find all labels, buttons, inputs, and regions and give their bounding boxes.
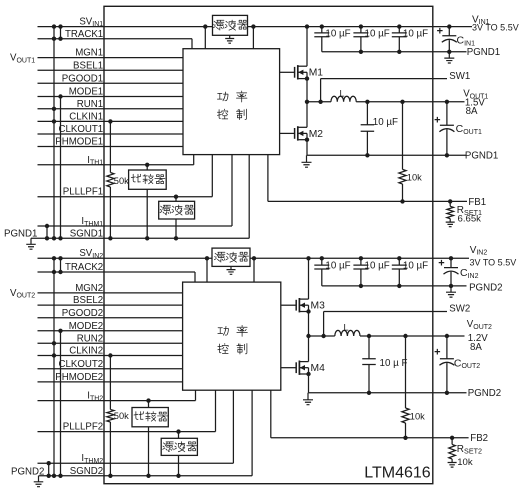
node cmp-ITH ch1 xyxy=(145,163,149,167)
svg-text:8A: 8A xyxy=(470,342,482,353)
wire 50k rail ch2 upper xyxy=(109,356,111,410)
node SGND2 x148.5 xyxy=(146,474,150,478)
node flt-PLL ch2 xyxy=(176,429,180,433)
capacitor C_OUT2 xyxy=(439,336,454,393)
svg-text:10 µF: 10 µF xyxy=(403,28,428,39)
node railB-SVIN ch2 xyxy=(58,256,62,260)
wire PLLLPF1 riser xyxy=(211,155,213,197)
svg-text:10k: 10k xyxy=(410,412,425,422)
node railB-MODE ch2 xyxy=(58,329,62,333)
wire jumper SVIN-TRACK ch2 xyxy=(60,258,62,272)
svg-text:LTM4616: LTM4616 xyxy=(364,465,431,482)
comparator box (比较器) ch1 xyxy=(129,170,167,189)
wire M4 source rail xyxy=(308,368,310,393)
svg-text:3V TO 5.5V: 3V TO 5.5V xyxy=(470,257,517,267)
ground R_SET2 xyxy=(448,459,457,467)
wire I_TH2 xyxy=(38,400,196,402)
transistor M2 body stub xyxy=(298,132,307,134)
transistor M3 source stub xyxy=(299,311,308,313)
transistor M2 channel bar xyxy=(297,126,299,140)
node M1 source xyxy=(305,76,309,80)
wire PGND2 output xyxy=(309,392,467,394)
node railA-SVIN ch1 xyxy=(52,24,56,28)
wire SVIN riser b ch2 xyxy=(253,258,255,282)
svg-text:MGN2: MGN2 xyxy=(75,283,103,294)
wire FB2 riser xyxy=(270,390,272,438)
node 10k top ch2 xyxy=(403,334,407,338)
wire PLLLPF2 xyxy=(38,431,216,433)
node switch-rail ch2 xyxy=(306,334,310,338)
transistor M1 body stub xyxy=(298,71,307,73)
wire switch node ch1 xyxy=(307,101,331,103)
ground PGND2 xyxy=(34,476,44,487)
node 10uF bottom ch2 xyxy=(367,391,371,395)
wire input gnd line ch1 xyxy=(322,51,467,53)
capacitor 10uF out ch2 xyxy=(362,336,376,393)
resistor 50k ch1 xyxy=(107,173,114,188)
svg-text:PLLLPF2: PLLLPF2 xyxy=(63,422,103,433)
svg-text:10 µF: 10 µF xyxy=(325,261,350,272)
wire SGND1 xyxy=(31,237,249,239)
node R_SET2 top xyxy=(450,436,454,440)
wire SGND2 riser xyxy=(251,390,253,476)
transistor M1 drain stub xyxy=(298,65,307,67)
capacitor C_OUT1 xyxy=(439,102,454,156)
svg-text:10 µF: 10 µF xyxy=(373,117,398,128)
filter box (滤波器) ch1 top xyxy=(213,15,248,35)
transistor M1 body arrow xyxy=(298,70,303,75)
wire M4 drain rail xyxy=(308,336,310,362)
svg-text:PGND1: PGND1 xyxy=(467,47,500,58)
wire TRACK2 xyxy=(38,271,196,273)
svg-text:COUT2: COUT2 xyxy=(454,357,480,370)
svg-text:PGOOD1: PGOOD1 xyxy=(62,73,103,84)
node cap3 bottom ch2 xyxy=(397,284,401,288)
node SVIN riser b ch2 xyxy=(252,256,256,260)
wire M3 source rail xyxy=(308,305,310,336)
inductor L ch1 xyxy=(331,96,356,102)
svg-text:CLKIN2: CLKIN2 xyxy=(69,346,103,357)
svg-text:L: L xyxy=(340,88,345,98)
svg-text:PGOOD2: PGOOD2 xyxy=(62,308,103,319)
svg-text:BSEL1: BSEL1 xyxy=(73,60,103,71)
node cap3 top ch1 xyxy=(397,24,401,28)
node SGND1 x60.5 xyxy=(58,236,62,240)
transistor M3 channel bar xyxy=(298,298,300,312)
svg-text:CLKOUT2: CLKOUT2 xyxy=(59,359,104,370)
filter box (滤波器) ch2 top xyxy=(212,248,250,266)
node cap2 bottom ch1 xyxy=(359,50,363,54)
ground M4 source xyxy=(303,393,313,405)
node M2 source xyxy=(305,138,309,142)
svg-text:PGND2: PGND2 xyxy=(11,467,44,478)
node 10uF top ch2 xyxy=(367,334,371,338)
wire input gnd line ch2 xyxy=(322,285,467,287)
svg-text:SVIN2: SVIN2 xyxy=(79,248,103,260)
power-control block U2 xyxy=(183,282,281,390)
capacitor 10uF input 2 ch1 xyxy=(353,27,368,52)
node C_IN2 top xyxy=(449,256,453,260)
svg-text:ITH1: ITH1 xyxy=(87,155,103,167)
svg-text:10 µF: 10 µF xyxy=(403,261,428,272)
ground C_IN1 xyxy=(444,52,454,63)
svg-text:PLLLPF1: PLLLPF1 xyxy=(63,187,103,198)
node SGND2 x48.7 xyxy=(47,474,51,478)
wire SW1 riser xyxy=(320,79,322,102)
wire I_THM1 xyxy=(38,225,233,227)
node cap3 bottom ch1 xyxy=(397,50,401,54)
capacitor 10uF input 3 ch1 xyxy=(392,27,407,52)
resistor R_SET1 xyxy=(447,206,454,218)
wire switch node ch2 xyxy=(309,335,335,337)
wire MGN2 xyxy=(38,292,183,294)
wire 10k rail upper ch1 xyxy=(402,102,404,170)
wire FB1 riser xyxy=(267,155,269,202)
wire CLKIN1 xyxy=(38,120,184,122)
svg-text:M2: M2 xyxy=(309,129,324,140)
wire M2 gate lead xyxy=(280,132,295,134)
svg-text:CLKOUT1: CLKOUT1 xyxy=(59,124,104,135)
wire SV_IN2/V_IN2 net xyxy=(38,257,470,259)
transistor M4 gate bar xyxy=(295,362,297,373)
wire comparator rail ch2 xyxy=(148,401,150,476)
ground M2 source xyxy=(302,155,312,167)
transistor M2 drain stub xyxy=(298,126,307,128)
ground filter ch2 xyxy=(227,266,236,274)
wire M1 drain rail xyxy=(306,27,308,67)
wire I_THM2 xyxy=(38,462,234,464)
wire M3 drain rail xyxy=(308,258,310,299)
svg-text:10 µF: 10 µF xyxy=(325,28,350,39)
svg-text:L: L xyxy=(344,323,349,333)
filter box (滤波器) ch2 lower xyxy=(161,438,197,455)
wire 50k rail ch1 lower xyxy=(109,187,111,238)
transistor M1 source stub xyxy=(298,78,307,80)
wire SV_IN1/V_IN1 net xyxy=(38,26,473,28)
node SGND1 x54 xyxy=(52,236,56,240)
wire MODE1 xyxy=(38,96,184,98)
svg-text:PGND2: PGND2 xyxy=(469,283,502,294)
svg-text:6.65k: 6.65k xyxy=(458,214,482,225)
svg-text:ITHM2: ITHM2 xyxy=(81,453,103,465)
svg-text:RSET2: RSET2 xyxy=(457,444,482,456)
wire PHMODE2 xyxy=(38,381,183,383)
svg-text:PGND1: PGND1 xyxy=(465,151,498,162)
svg-text:+: + xyxy=(434,347,440,359)
node switch-rail ch1 xyxy=(305,100,309,104)
svg-text:FB1: FB1 xyxy=(468,197,486,208)
node R_SET1 top xyxy=(448,199,452,203)
svg-text:MGN1: MGN1 xyxy=(75,48,103,59)
svg-text:+: + xyxy=(438,257,444,269)
node C_IN1 top xyxy=(447,24,451,28)
node SGND1 x176 xyxy=(174,236,178,240)
wire FB1 xyxy=(268,200,467,202)
svg-text:MODE2: MODE2 xyxy=(69,321,103,332)
svg-text:VOUT1: VOUT1 xyxy=(10,53,35,65)
wire M3 gate lead xyxy=(281,304,296,306)
node SGND2 x60.5 xyxy=(58,474,62,478)
node 50k-CLKIN ch1 xyxy=(108,119,112,123)
filter box (滤波器) ch1 lower xyxy=(159,201,195,219)
wire I_TH1 riser xyxy=(193,155,195,165)
wire I_TH1 xyxy=(38,164,194,166)
wire PHMODE1 xyxy=(38,146,184,148)
wire filter rail ch1 xyxy=(175,197,177,239)
node railA-CLKIN ch2 xyxy=(52,353,56,357)
resistor 10k ch1 xyxy=(399,169,406,184)
node C_OUT1 bottom xyxy=(445,153,449,157)
svg-text:ITHM1: ITHM1 xyxy=(81,216,103,228)
wire V_OUT2 line xyxy=(360,335,465,337)
wire TRACK2 riser xyxy=(194,272,196,282)
svg-text:PGND2: PGND2 xyxy=(468,388,501,399)
transistor M3 drain stub xyxy=(299,298,308,300)
comparator box (比较器) ch2 xyxy=(132,408,168,427)
transistor M2 body arrow xyxy=(298,131,303,136)
wire PGND2 jumper xyxy=(48,463,50,476)
wire BSEL2 xyxy=(38,304,183,306)
wire SVIN riser a ch2 xyxy=(206,258,208,282)
capacitor 10uF out ch1 xyxy=(361,102,375,156)
wire SGND2 xyxy=(39,475,253,477)
wire SW2 xyxy=(324,311,447,313)
wire CLKOUT1 xyxy=(38,133,184,135)
node SGND2 x178.5 xyxy=(176,474,180,478)
node cap2 bottom ch2 xyxy=(359,284,363,288)
transistor M4 source stub xyxy=(299,373,308,375)
wire M1 source rail xyxy=(306,72,308,102)
wire 10k rail lower ch1 xyxy=(402,184,404,201)
node railB-TRACK ch2 xyxy=(58,270,62,274)
wire I_THM2 riser xyxy=(232,390,234,463)
svg-text:VOUT2: VOUT2 xyxy=(10,288,35,300)
wire PGOOD1 xyxy=(38,82,184,84)
svg-text:10 µF: 10 µF xyxy=(365,28,390,39)
wire M1 gate lead xyxy=(280,71,295,73)
capacitor 10uF input 2 ch2 xyxy=(353,258,368,286)
wire I_THM1 riser xyxy=(231,155,233,226)
svg-text:8A: 8A xyxy=(466,106,478,117)
transistor M3 body stub xyxy=(299,304,308,306)
svg-text:SGND2: SGND2 xyxy=(70,466,103,477)
wire CLKOUT2 xyxy=(38,368,183,370)
node railA-RUN ch2 xyxy=(52,341,56,345)
svg-text:M1: M1 xyxy=(309,68,324,79)
resistor 50k ch2 xyxy=(107,410,114,423)
wire M2 source rail xyxy=(306,133,308,155)
svg-text:10 µF: 10 µF xyxy=(365,261,390,272)
wire FB2 xyxy=(271,437,469,439)
node C_OUT1 top xyxy=(445,100,449,104)
wire SW2 riser xyxy=(323,312,325,337)
svg-text:10k: 10k xyxy=(457,457,473,468)
capacitor 10uF input 1 ch1 xyxy=(314,27,329,52)
node railA-TRACK ch1 xyxy=(52,37,56,41)
node cap1 top ch2 xyxy=(320,256,324,260)
node M4 source xyxy=(306,372,310,376)
transistor M4 channel bar xyxy=(298,361,300,375)
wire rail B ch1 xyxy=(60,97,62,239)
svg-text:SW1: SW1 xyxy=(449,71,470,82)
svg-text:10k: 10k xyxy=(407,173,422,183)
node SGND1 x147.2 xyxy=(145,236,149,240)
svg-text:PHMODE1: PHMODE1 xyxy=(55,137,103,148)
svg-text:PGND1: PGND1 xyxy=(4,229,37,240)
node M1 drain xyxy=(305,24,309,28)
wire PGND1 output xyxy=(307,154,467,156)
svg-text:ITH2: ITH2 xyxy=(87,391,103,403)
svg-text:VOUT2: VOUT2 xyxy=(467,319,492,331)
wire 50k rail ch2 lower xyxy=(109,422,111,476)
node C_OUT2 bottom xyxy=(445,391,449,395)
transistor M3 body arrow xyxy=(300,303,305,308)
ground R_SET1 xyxy=(446,219,455,227)
wire M4 gate lead xyxy=(281,367,296,369)
label 功率控制 block2 xyxy=(218,325,248,354)
node flt-PLL ch1 xyxy=(174,195,178,199)
svg-text:M3: M3 xyxy=(311,301,326,312)
transistor M2 source stub xyxy=(298,139,307,141)
node railA-TRACK ch2 xyxy=(52,270,56,274)
wire PLLLPF1 xyxy=(38,196,213,198)
wire PGND1 jumper xyxy=(46,226,48,238)
wire 50k rail ch1 upper xyxy=(109,121,111,172)
node railB-TRACK ch1 xyxy=(58,37,62,41)
wire MGN1 xyxy=(38,57,184,59)
node M3 drain xyxy=(306,256,310,260)
node SVIN riser b ch1 xyxy=(251,24,255,28)
wire rail A ch1 xyxy=(53,27,55,239)
wire R_SET2 stem xyxy=(451,438,453,445)
svg-text:TRACK1: TRACK1 xyxy=(65,29,103,40)
node 10uF bottom ch1 xyxy=(365,153,369,157)
svg-text:RUN1: RUN1 xyxy=(77,99,103,110)
svg-text:MODE1: MODE1 xyxy=(69,87,103,98)
node sw-riser ch2 xyxy=(321,334,325,338)
wire PLLLPF2 riser xyxy=(215,390,217,431)
node SGND2 x110.4 xyxy=(108,474,112,478)
wire M2 drain rail xyxy=(306,102,308,128)
svg-text:3V TO 5.5V: 3V TO 5.5V xyxy=(472,23,519,33)
capacitor C_IN2 xyxy=(444,258,459,286)
ground filter ch1 xyxy=(225,35,234,43)
wire 10k rail lower ch2 xyxy=(405,423,407,438)
svg-text:VIN2: VIN2 xyxy=(470,245,488,257)
wire CLKIN2 xyxy=(38,355,183,357)
node sw-riser ch1 xyxy=(318,100,322,104)
svg-text:M4: M4 xyxy=(311,363,326,374)
node 10uF top ch1 xyxy=(365,100,369,104)
node cap1 top ch1 xyxy=(320,24,324,28)
wire MODE2 xyxy=(38,330,183,332)
transistor M2 gate bar xyxy=(294,128,296,139)
node SGND2 x54 xyxy=(52,474,56,478)
transistor M4 drain stub xyxy=(299,361,308,363)
svg-text:10 µ F: 10 µ F xyxy=(380,358,408,369)
wire SW1 xyxy=(321,78,447,80)
node railB-MODE ch1 xyxy=(58,94,62,98)
resistor 10k ch2 xyxy=(402,408,409,423)
node 50k-CLKIN ch2 xyxy=(108,353,112,357)
ground PGND1 xyxy=(26,238,36,249)
svg-text:FB2: FB2 xyxy=(470,433,488,444)
transistor M1 channel bar xyxy=(297,65,299,79)
node M3 source xyxy=(306,309,310,313)
transistor M4 body stub xyxy=(299,367,308,369)
svg-text:PHMODE2: PHMODE2 xyxy=(55,372,103,383)
capacitor 10uF input 3 ch2 xyxy=(392,258,407,286)
node railB-SVIN ch1 xyxy=(58,24,62,28)
node FB2-10k xyxy=(403,436,407,440)
node railA-RUN ch1 xyxy=(52,107,56,111)
wire jumper SVIN-TRACK ch1 xyxy=(60,27,62,39)
wire I_TH2 riser xyxy=(195,390,197,400)
power-control block U1 xyxy=(183,49,280,155)
wire comparator rail ch1 xyxy=(146,165,148,239)
svg-text:COUT1: COUT1 xyxy=(456,123,482,136)
svg-text:SVIN1: SVIN1 xyxy=(79,16,103,28)
node cap3 top ch2 xyxy=(397,256,401,260)
capacitor C_IN1 xyxy=(442,27,457,52)
wire RUN1 xyxy=(38,108,184,110)
wire TRACK1 xyxy=(38,38,193,40)
node C_IN1 bottom xyxy=(447,50,451,54)
inductor L ch2 xyxy=(335,330,360,336)
node pgnd-ITHM ch2 xyxy=(47,461,51,465)
wire SGND1 riser xyxy=(248,155,250,239)
svg-text:SW2: SW2 xyxy=(449,304,470,315)
svg-text:RUN2: RUN2 xyxy=(77,333,103,344)
resistor R_SET2 xyxy=(449,444,456,459)
node railA-CLKIN ch1 xyxy=(52,119,56,123)
svg-text:+: + xyxy=(434,115,440,127)
transistor M3 gate bar xyxy=(295,300,297,311)
svg-text:CIN1: CIN1 xyxy=(457,35,476,48)
wire filter rail ch2 xyxy=(178,432,180,476)
svg-text:CIN2: CIN2 xyxy=(460,267,479,280)
label 功率控制 block1 xyxy=(217,91,247,120)
svg-text:+: + xyxy=(437,26,443,38)
svg-text:50k: 50k xyxy=(114,176,129,186)
wire TRACK1 riser xyxy=(191,39,193,49)
wire rail A ch2 xyxy=(53,258,55,476)
node railA-SVIN ch2 xyxy=(52,256,56,260)
node C_OUT2 top xyxy=(445,334,449,338)
svg-text:SGND1: SGND1 xyxy=(70,229,103,240)
transistor M4 body arrow xyxy=(300,365,305,370)
capacitor 10uF input 1 ch2 xyxy=(314,258,329,286)
wire 10k rail upper ch2 xyxy=(405,336,407,408)
wire PGOOD2 xyxy=(38,317,183,319)
wire rail B ch2 xyxy=(60,331,62,476)
node pgnd-ITHM ch1 xyxy=(45,224,49,228)
node SGND1 x110.4 xyxy=(108,236,112,240)
node SVIN riser a ch2 xyxy=(205,256,209,260)
node 10k top ch1 xyxy=(400,100,404,104)
svg-text:TRACK2: TRACK2 xyxy=(65,262,103,273)
wire RUN2 xyxy=(38,342,183,344)
wire R_SET1 stem xyxy=(449,201,451,206)
wire SVIN riser b ch1 xyxy=(252,27,254,49)
svg-text:BSEL2: BSEL2 xyxy=(73,295,103,306)
wire V_OUT1 line xyxy=(356,101,464,103)
node C_IN2 bottom xyxy=(449,284,453,288)
node FB1-10k xyxy=(400,199,404,203)
transistor M1 gate bar xyxy=(294,67,296,78)
node cmp-ITH ch2 xyxy=(146,398,150,402)
node cap2 top ch1 xyxy=(359,24,363,28)
